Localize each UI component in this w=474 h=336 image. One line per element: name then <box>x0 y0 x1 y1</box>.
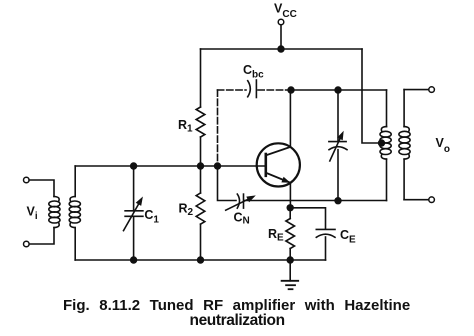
resistor R1 <box>196 107 205 137</box>
ground <box>282 260 299 289</box>
wire : output top lead <box>404 89 429 91</box>
node : ground junction <box>287 256 294 263</box>
wire : output bottom lead <box>404 199 429 201</box>
node Vcc terminal <box>278 19 284 25</box>
node : R1/R2 junction <box>197 162 204 169</box>
wire : C1 lower lead <box>133 216 135 260</box>
wire : Vcc drop to rail <box>280 25 282 49</box>
resistor RE <box>286 219 295 249</box>
node : junction Vcc on rail <box>277 45 284 52</box>
svg-text:neutralization: neutralization <box>190 312 285 329</box>
node : C1 bottom junction <box>130 256 137 263</box>
inductor : output transformer primary <box>380 90 391 201</box>
wire : input top lead <box>29 180 54 197</box>
wire : emitter to RE <box>289 208 291 219</box>
wire : base line <box>75 165 266 167</box>
inductor : output transformer secondary <box>399 90 410 200</box>
inductor : input transformer primary <box>49 197 60 228</box>
wire : R2 to bottom rail <box>200 224 202 260</box>
wire : RE to ground rail <box>289 249 291 261</box>
wire : input bottom lead <box>29 228 54 244</box>
node : output terminal top <box>429 87 435 93</box>
transistor Q1 <box>257 143 300 186</box>
wire : R1 to base line <box>200 137 202 166</box>
wire : base line down to R2 <box>200 166 202 193</box>
node : neutralization tap junction <box>214 162 221 169</box>
wire : bottom rail <box>75 259 325 261</box>
node : tank capacitor bottom junction <box>334 197 341 204</box>
wire : collector rail <box>291 89 387 91</box>
capacitor CE <box>316 229 335 237</box>
wire : C1 upper lead <box>133 166 135 211</box>
wire : Vcc tap line to transformer <box>362 49 382 143</box>
capacitor C2 (tank, variable) <box>329 90 347 201</box>
wire : CN branch from base junction <box>218 166 237 201</box>
node : tank capacitor top junction <box>334 86 341 93</box>
wire : emitter lead <box>289 183 291 208</box>
wire : dashed to Cbc <box>218 89 247 91</box>
node : primary tap junction <box>378 139 385 146</box>
capacitor C1 (variable) <box>124 197 143 231</box>
node : R2 bottom junction <box>197 256 204 263</box>
node : output terminal bottom <box>429 197 435 203</box>
wire : rail down to R1 <box>200 49 202 107</box>
wire : collector lead <box>289 90 291 147</box>
capacitor Cbc (internal, dashed) <box>248 80 257 98</box>
node : input terminal top <box>24 177 30 183</box>
node : C1 top junction <box>130 162 137 169</box>
wire : top supply rail <box>201 48 363 50</box>
capacitor CN (neutralizing, variable) <box>226 194 256 210</box>
wire : tank bottom line <box>245 200 387 202</box>
node : emitter junction <box>287 204 294 211</box>
node : collector junction <box>287 86 294 93</box>
inductor : input transformer secondary <box>69 166 80 260</box>
wire : dashed Cbc to collector <box>258 89 291 91</box>
node : input terminal bottom <box>24 241 30 247</box>
wire : emitter branch to CE <box>290 208 325 229</box>
resistor R2 <box>196 193 205 224</box>
wire : dashed neutralization feedback (vertical) <box>217 90 219 166</box>
wire : CE to bottom rail <box>325 237 327 260</box>
